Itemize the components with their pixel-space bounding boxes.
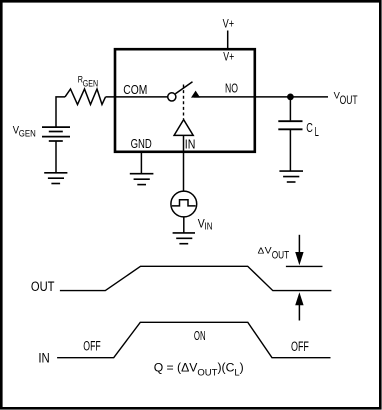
wire VIN to ground — [183, 217, 185, 233]
label VIN — [198, 217, 213, 233]
label ON — [194, 328, 206, 343]
pin GND — [131, 136, 152, 151]
wire junction to capacitor — [289, 97, 291, 121]
wire OUT waveform — [60, 266, 332, 290]
svg-text:V+: V+ — [223, 50, 234, 64]
svg-text:GEN: GEN — [83, 78, 98, 89]
switch NO contact arrow — [191, 91, 200, 98]
equation Q = (dVOUT)(CL) — [154, 361, 244, 379]
label dVOUT — [258, 246, 290, 262]
resistor RGEN — [65, 89, 106, 105]
GND pin wire — [140, 152, 142, 174]
svg-text:OUT: OUT — [272, 249, 290, 261]
svg-text:IN: IN — [185, 137, 196, 152]
svg-text:COM: COM — [123, 82, 147, 97]
wire capacitor to ground — [289, 129, 291, 170]
op-amp U1 (switch IC box) — [115, 49, 255, 152]
svg-text:OFF: OFF — [291, 339, 309, 354]
node V+ (supply label) — [223, 16, 235, 30]
switch arm — [175, 82, 192, 94]
wire NO to VOUT — [194, 96, 328, 98]
node VOUT label — [334, 90, 358, 107]
ground (CL) — [279, 171, 303, 182]
svg-text:L: L — [315, 125, 319, 139]
capacitor CL — [278, 121, 302, 129]
pin V+ (inside box) — [223, 50, 234, 64]
svg-text:IN: IN — [205, 221, 213, 233]
ground (VIN) — [173, 233, 195, 244]
wire VGEN to resistor — [56, 97, 65, 127]
wire IN waveform — [57, 322, 330, 357]
wire V+ to box — [227, 31, 229, 50]
wire battery to ground — [55, 141, 57, 173]
svg-text:GND: GND — [131, 136, 152, 151]
svg-text:C: C — [306, 121, 313, 135]
label IN (waveform) — [38, 351, 49, 366]
svg-text:OUT: OUT — [340, 95, 358, 107]
pin IN — [185, 137, 196, 152]
svg-text:IN: IN — [38, 351, 49, 366]
svg-text:GEN: GEN — [19, 129, 36, 140]
ground (VGEN) — [44, 173, 67, 184]
label OFF (left) — [83, 338, 100, 353]
label OUT (waveform) — [31, 279, 55, 294]
svg-text:NO: NO — [225, 81, 238, 96]
label OFF (right) — [291, 339, 309, 354]
ground (GND pin) — [130, 174, 154, 185]
switch pole circle — [168, 93, 176, 101]
dashed control line — [183, 85, 185, 119]
label RGEN — [78, 74, 98, 89]
wire resistor to COM — [106, 96, 168, 98]
wire IN pin to VIN source — [183, 135, 185, 191]
label VGEN — [13, 125, 36, 140]
svg-text:ON: ON — [194, 328, 206, 343]
svg-text:OUT: OUT — [31, 279, 55, 294]
label CL — [306, 121, 319, 139]
node junction dot — [287, 94, 294, 101]
arrow up — [295, 292, 303, 320]
pulse source VIN — [171, 191, 197, 217]
arrow down — [295, 235, 303, 265]
svg-text:OFF: OFF — [83, 338, 100, 353]
driver triangle — [174, 120, 193, 136]
svg-text:V+: V+ — [223, 16, 235, 30]
pin NO — [225, 81, 238, 96]
pin COM — [123, 82, 147, 97]
reference line high level — [286, 265, 323, 267]
battery VGEN — [42, 127, 70, 141]
